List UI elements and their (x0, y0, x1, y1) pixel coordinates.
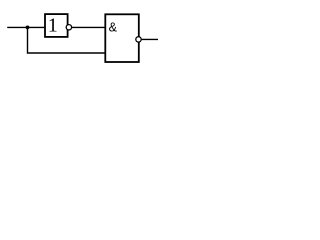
wire: output net from U2 bubble to the right (142, 38, 158, 40)
NOT gate U1 (IEC box symbol) (45, 14, 68, 37)
svg-text:1: 1 (48, 14, 58, 36)
wire: U1 output to U2 upper input (72, 26, 106, 28)
U2 output inversion bubble (136, 37, 141, 42)
wire: branch from node A down and right to U2 lower input (28, 27, 106, 53)
svg-text:&: & (109, 21, 118, 35)
U1 output inversion bubble (66, 25, 71, 30)
AND gate U2 (IEC box symbol) (105, 14, 139, 62)
node A: junction dot on input net (26, 26, 30, 30)
wire: input net from left edge to U1 input (7, 26, 46, 28)
